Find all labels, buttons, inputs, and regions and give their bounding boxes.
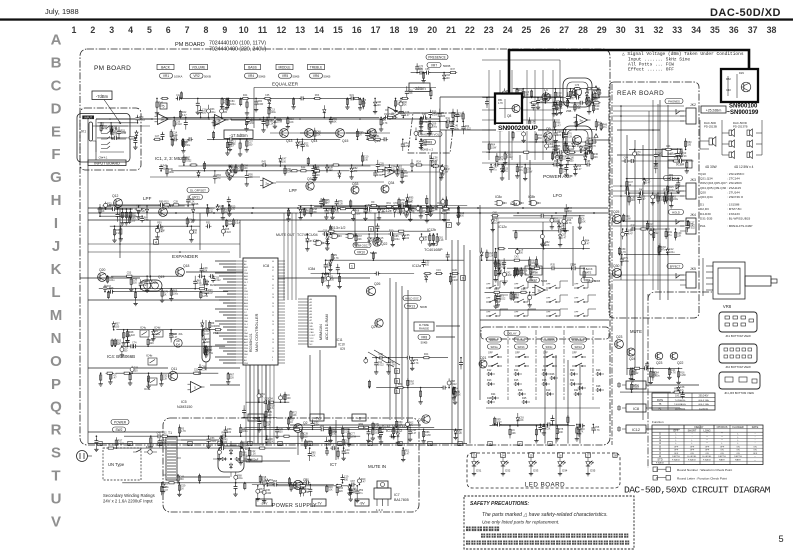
wire bbox=[242, 417, 277, 419]
capacitor C237 bbox=[514, 97, 518, 115]
resistor R564 bbox=[372, 422, 380, 430]
svg-text:100: 100 bbox=[446, 77, 451, 80]
wire bus junction dots bbox=[99, 207, 595, 214]
svg-text:M: M bbox=[50, 307, 63, 324]
resistor R457 bbox=[494, 292, 503, 309]
wire bbox=[632, 228, 670, 230]
svg-text:1/2W: 1/2W bbox=[491, 146, 497, 149]
resistor R529 bbox=[555, 141, 557, 154]
svg-text:100: 100 bbox=[268, 414, 273, 417]
resistor R610 bbox=[203, 161, 205, 172]
capacitor C595 bbox=[350, 480, 356, 487]
svg-text:22K: 22K bbox=[576, 107, 581, 110]
svg-text:Q25: Q25 bbox=[613, 210, 620, 214]
resistor R96 bbox=[119, 225, 123, 241]
resistor R481 bbox=[267, 401, 275, 412]
resistor R562 bbox=[347, 429, 357, 447]
capacitor C416 bbox=[158, 435, 167, 447]
svg-text:34: 34 bbox=[272, 279, 274, 281]
resistor R308 bbox=[626, 185, 628, 194]
resistor R87 bbox=[111, 125, 119, 138]
capacitor C305 bbox=[676, 178, 680, 194]
svg-text:10K: 10K bbox=[289, 121, 294, 124]
svg-text:: 2SC2458 F: : 2SC2458 F bbox=[727, 172, 744, 176]
capacitor C379 bbox=[542, 424, 551, 436]
svg-text:OFF: OFF bbox=[514, 311, 519, 313]
label EQUALIZER bbox=[272, 82, 299, 87]
capacitor C219 bbox=[550, 264, 556, 271]
svg-text:4.7K: 4.7K bbox=[498, 102, 503, 105]
svg-text:4: 4 bbox=[128, 25, 133, 35]
transistor Q32 bbox=[306, 177, 314, 190]
resistor R485 bbox=[286, 417, 295, 430]
capacitor C244 bbox=[489, 164, 498, 173]
wire bbox=[420, 120, 451, 122]
svg-text:10K: 10K bbox=[292, 414, 297, 417]
label POWER AMP bbox=[543, 174, 573, 180]
potentiometer VR8 mechanical drawing bbox=[703, 258, 777, 309]
capacitor C193 electrolytic bbox=[502, 267, 512, 285]
svg-text:R96: R96 bbox=[320, 425, 325, 428]
svg-text:23: 23 bbox=[472, 454, 476, 458]
capacitor C34 bbox=[184, 117, 188, 130]
svg-text:2.2K: 2.2K bbox=[116, 232, 121, 235]
resistor R533 bbox=[555, 102, 564, 116]
svg-text:100u: 100u bbox=[173, 292, 179, 295]
svg-text:7: 7 bbox=[448, 224, 450, 228]
resistor R163 bbox=[405, 199, 413, 209]
capacitor C358 bbox=[366, 427, 370, 443]
svg-text:Q18: Q18 bbox=[183, 264, 190, 268]
resistor R162 bbox=[310, 205, 318, 217]
transistor Q19 bbox=[140, 275, 165, 291]
resistor R225 bbox=[497, 248, 505, 250]
resistor R354 bbox=[407, 378, 415, 388]
capacitor C601 bbox=[213, 170, 222, 184]
connector JK3 bbox=[676, 178, 696, 199]
pill E-LEVEL DEPTH bbox=[525, 266, 547, 283]
resistor R216 bbox=[515, 230, 517, 240]
wire bbox=[102, 205, 184, 207]
svg-text:47u: 47u bbox=[668, 234, 673, 237]
svg-text:1: 1 bbox=[351, 265, 353, 269]
capacitor C319 bbox=[668, 174, 674, 181]
svg-text:330: 330 bbox=[134, 369, 139, 372]
svg-text:Function: Function bbox=[652, 420, 664, 424]
resistor R318 bbox=[664, 145, 672, 151]
svg-text:1/2W: 1/2W bbox=[425, 434, 431, 437]
svg-text:2: 2 bbox=[396, 370, 398, 374]
svg-text:C42: C42 bbox=[157, 432, 162, 435]
svg-text:D4-D30: D4-D30 bbox=[700, 212, 711, 216]
svg-text:10K: 10K bbox=[332, 121, 337, 124]
svg-text:0.47: 0.47 bbox=[112, 376, 117, 379]
pill LONG bbox=[514, 337, 528, 342]
resistor R381 bbox=[534, 425, 538, 443]
capacitor C195 bbox=[542, 239, 551, 249]
svg-text:OFF: OFF bbox=[674, 450, 679, 452]
svg-text:4.7K: 4.7K bbox=[591, 145, 596, 148]
transistor Q13 bbox=[280, 129, 293, 143]
svg-text:ON: ON bbox=[705, 453, 709, 455]
svg-text:4.7K: 4.7K bbox=[323, 202, 328, 205]
svg-text:50KB: 50KB bbox=[443, 64, 450, 68]
svg-text:SAFETY PRECAUTIONS:: SAFETY PRECAUTIONS: bbox=[470, 501, 529, 507]
control label BACK bbox=[157, 64, 174, 69]
svg-text:VR7: VR7 bbox=[431, 63, 437, 67]
capacitor C534 bbox=[584, 141, 593, 156]
svg-text:EFFECT: EFFECT bbox=[670, 264, 681, 268]
capacitor C598 electrolytic bbox=[439, 165, 449, 180]
wire bbox=[513, 215, 584, 217]
svg-text:0.47: 0.47 bbox=[235, 222, 240, 225]
control label BASS bbox=[245, 64, 261, 69]
wire bbox=[122, 482, 306, 484]
resistor R226 bbox=[491, 211, 499, 217]
svg-text:47u: 47u bbox=[422, 210, 427, 213]
resistor R549 bbox=[391, 233, 401, 247]
svg-text:2.2K: 2.2K bbox=[269, 123, 274, 126]
svg-text:1K: 1K bbox=[181, 487, 184, 490]
diode D179 bbox=[328, 259, 332, 271]
svg-text:-9V: -9V bbox=[359, 501, 365, 505]
capacitor C129 bbox=[205, 288, 214, 295]
resistor R541 bbox=[592, 98, 600, 104]
svg-text:28: 28 bbox=[578, 25, 588, 35]
wire bbox=[314, 206, 422, 208]
diode D580 bbox=[347, 484, 356, 496]
capacitor C235 electrolytic bbox=[521, 129, 525, 143]
resistor R249 bbox=[562, 129, 564, 140]
svg-text:330: 330 bbox=[666, 199, 671, 202]
resistor R594 bbox=[335, 485, 343, 487]
svg-text:R51: R51 bbox=[206, 222, 211, 225]
svg-text:D19: D19 bbox=[546, 389, 551, 392]
diode D56 bbox=[373, 98, 382, 114]
capacitor C290 bbox=[558, 150, 564, 154]
wire second channel bbox=[150, 172, 440, 182]
resistor R274 bbox=[558, 97, 567, 115]
PM board outline bbox=[80, 49, 610, 445]
pot VR7 bbox=[427, 63, 450, 69]
capacitor C390 bbox=[496, 422, 502, 426]
svg-text:D15: D15 bbox=[514, 379, 519, 382]
svg-text:22K: 22K bbox=[345, 452, 350, 455]
svg-text:A4: A4 bbox=[310, 310, 313, 313]
resistor R536 bbox=[574, 102, 582, 112]
svg-text:10K: 10K bbox=[519, 419, 524, 422]
svg-text:24: 24 bbox=[503, 25, 513, 35]
svg-text:Q04,Q05,Q09-Q30: Q04,Q05,Q09-Q30 bbox=[700, 186, 726, 190]
gate IC13b bbox=[346, 233, 359, 238]
resistor R386 bbox=[575, 424, 584, 442]
transistor Q8 callout box bbox=[495, 94, 522, 124]
resistor R513 bbox=[658, 245, 660, 255]
wire bbox=[620, 391, 671, 393]
svg-text:330: 330 bbox=[133, 282, 138, 285]
svg-text:0.022: 0.022 bbox=[451, 383, 458, 386]
svg-text:R84: R84 bbox=[359, 423, 364, 426]
capacitor C553 bbox=[376, 223, 380, 232]
svg-text:VR8: VR8 bbox=[723, 304, 732, 309]
speakers SP1-SP5 bbox=[700, 120, 762, 169]
resistor R408 bbox=[149, 435, 153, 449]
svg-text:22K: 22K bbox=[203, 270, 208, 273]
regulator IC7 package bbox=[374, 481, 409, 512]
resistor R241 bbox=[522, 88, 530, 99]
capacitor C326 bbox=[169, 329, 173, 340]
wire bbox=[111, 447, 296, 449]
svg-text:47u: 47u bbox=[532, 271, 537, 274]
resistor R439 bbox=[676, 368, 686, 385]
svg-text:R42: R42 bbox=[639, 189, 644, 192]
capacitor C483 electrolytic bbox=[279, 394, 288, 404]
capacitor C420 bbox=[325, 447, 329, 456]
resistor R250 bbox=[598, 87, 600, 98]
resistor R374 bbox=[396, 383, 404, 389]
capacitor C467 bbox=[438, 109, 447, 123]
svg-text:0.47: 0.47 bbox=[548, 146, 553, 149]
label IC11 IC10 IC9 bbox=[336, 338, 345, 351]
resistor R146 bbox=[419, 206, 428, 218]
diode D58 bbox=[295, 139, 304, 149]
diode D322 bbox=[202, 336, 211, 347]
capacitor C340 bbox=[169, 329, 178, 342]
svg-text:330: 330 bbox=[330, 278, 335, 281]
capacitor C497 electrolytic bbox=[104, 202, 113, 210]
capacitor C251 bbox=[506, 123, 516, 130]
svg-text:PA5: PA5 bbox=[244, 335, 249, 338]
capacitor C320 electrolytic bbox=[130, 366, 139, 374]
svg-text:330: 330 bbox=[305, 491, 310, 494]
svg-text:2.2K: 2.2K bbox=[338, 203, 343, 206]
diode D532 bbox=[544, 135, 553, 143]
IC12 power box bbox=[617, 425, 646, 433]
diode D404 bbox=[161, 482, 169, 494]
capacitor C141 electrolytic bbox=[416, 205, 420, 212]
resistor R21 bbox=[430, 88, 432, 99]
svg-text:28: 28 bbox=[272, 297, 274, 299]
svg-text:OFF: OFF bbox=[486, 311, 491, 313]
capacitor C452 electrolytic bbox=[528, 292, 532, 308]
capacitor C1 bbox=[365, 130, 374, 140]
resistor R450 bbox=[673, 388, 681, 394]
svg-text:IC9: IC9 bbox=[340, 347, 345, 351]
resistor R154 bbox=[399, 205, 407, 216]
svg-text:IC4b: IC4b bbox=[146, 354, 153, 358]
op-amp IC3b bbox=[532, 285, 548, 295]
wire bbox=[323, 208, 415, 210]
resistor R207 bbox=[520, 267, 528, 277]
svg-text:PA8: PA8 bbox=[244, 314, 249, 317]
svg-text:LPF: LPF bbox=[289, 188, 297, 193]
svg-text:100u: 100u bbox=[169, 171, 175, 174]
svg-text:Round Letter : Function Check: Round Letter : Function Check Point bbox=[677, 477, 727, 481]
capacitor C46 bbox=[329, 117, 338, 125]
svg-text:RATE: RATE bbox=[752, 426, 759, 429]
svg-text:A3: A3 bbox=[244, 359, 247, 362]
resistor R437 bbox=[161, 432, 169, 438]
capacitor C588 electrolytic bbox=[301, 485, 310, 496]
svg-text:1/2W: 1/2W bbox=[680, 374, 686, 377]
svg-text:U: U bbox=[51, 491, 62, 508]
transistor Q8 bbox=[498, 99, 520, 118]
capacitor C257 electrolytic bbox=[502, 88, 512, 98]
svg-text:A1: A1 bbox=[310, 301, 313, 304]
resistor R267 bbox=[523, 164, 533, 181]
svg-text:25: 25 bbox=[272, 306, 274, 308]
svg-text:330: 330 bbox=[344, 478, 349, 481]
svg-text:July, 1988: July, 1988 bbox=[45, 7, 79, 16]
pill SHORT bbox=[487, 337, 502, 342]
resistor R83 bbox=[100, 122, 108, 133]
svg-text:SW2: SW2 bbox=[116, 428, 123, 432]
svg-text:-7V: -7V bbox=[315, 416, 321, 420]
pill POWER bbox=[111, 420, 129, 433]
resistor R240 bbox=[591, 151, 599, 160]
svg-text:4.7K: 4.7K bbox=[334, 211, 339, 214]
svg-text:PA4: PA4 bbox=[244, 332, 249, 335]
svg-text:100: 100 bbox=[519, 252, 524, 255]
resistor R276 bbox=[552, 160, 560, 166]
check nodes bbox=[154, 223, 466, 281]
resistor R406 bbox=[177, 474, 185, 484]
svg-text:30: 30 bbox=[616, 25, 626, 35]
capacitor C31 bbox=[261, 117, 265, 133]
svg-text:Q23: Q23 bbox=[616, 335, 623, 339]
resistor R12 bbox=[240, 98, 242, 107]
capacitor C198 electrolytic bbox=[581, 237, 590, 250]
resistor R334 bbox=[128, 372, 132, 385]
svg-text:DOUT: DOUT bbox=[310, 335, 316, 337]
wire bbox=[267, 485, 352, 487]
svg-text:2.2K: 2.2K bbox=[202, 368, 207, 371]
resistor R323 bbox=[209, 320, 216, 330]
wire power amp grid bbox=[482, 60, 560, 163]
label EXPANDER bbox=[172, 254, 199, 260]
diode D197 bbox=[491, 215, 501, 232]
resistor R573 bbox=[371, 427, 380, 441]
svg-text:D20: D20 bbox=[570, 369, 575, 372]
wire equalizer signal path bbox=[96, 118, 440, 133]
svg-text:34: 34 bbox=[691, 25, 701, 35]
resistor R321 bbox=[146, 372, 150, 388]
svg-text:PM BOARD: PM BOARD bbox=[175, 42, 205, 48]
resistor R455 bbox=[510, 292, 518, 301]
svg-text:100u: 100u bbox=[669, 251, 675, 254]
svg-text:INPUT BOARD: INPUT BOARD bbox=[94, 161, 120, 165]
capacitor C464 bbox=[450, 121, 459, 134]
svg-text:A7: A7 bbox=[310, 319, 313, 322]
resistor R286 bbox=[590, 88, 598, 90]
resistor R471 bbox=[462, 111, 464, 122]
svg-text:AB4: AB4 bbox=[244, 302, 249, 305]
capacitor C378 bbox=[538, 424, 542, 433]
wire bbox=[124, 435, 360, 437]
resistor R285 bbox=[496, 129, 504, 131]
svg-text:2.2K: 2.2K bbox=[190, 201, 195, 204]
resistor R65 bbox=[352, 97, 360, 99]
resistor R380 bbox=[567, 415, 569, 425]
resistor R515 bbox=[672, 157, 680, 163]
capacitor C592 bbox=[355, 485, 364, 503]
svg-text:47u: 47u bbox=[519, 169, 524, 172]
capacitor C472 electrolytic bbox=[428, 121, 438, 135]
svg-text:A1: A1 bbox=[244, 263, 247, 266]
svg-text:330: 330 bbox=[180, 478, 185, 481]
svg-text:D26: D26 bbox=[550, 373, 555, 376]
svg-text:25: 25 bbox=[522, 25, 532, 35]
svg-text:330: 330 bbox=[374, 432, 379, 435]
svg-text:A0: A0 bbox=[310, 298, 313, 301]
resistor R345 bbox=[226, 372, 235, 384]
resistor R174 bbox=[385, 202, 393, 208]
diode D311 bbox=[642, 178, 651, 185]
svg-text:1 2 3: 1 2 3 bbox=[376, 508, 383, 512]
svg-text:CK1: CK1 bbox=[244, 294, 249, 296]
svg-text:OFF: OFF bbox=[690, 446, 695, 448]
svg-text:Q12: Q12 bbox=[112, 194, 119, 198]
svg-text:0.47: 0.47 bbox=[159, 230, 164, 233]
svg-text:13: 13 bbox=[295, 25, 305, 35]
svg-text:R44: R44 bbox=[243, 94, 248, 97]
svg-text:C73: C73 bbox=[625, 189, 630, 192]
resistor R14 bbox=[171, 138, 173, 146]
power supply outline bbox=[163, 418, 419, 512]
resistor R633 bbox=[332, 164, 340, 166]
diode D384 bbox=[516, 413, 525, 427]
svg-text:: 2SD746 O: : 2SD746 O bbox=[727, 195, 744, 199]
svg-text:D21: D21 bbox=[210, 283, 216, 287]
capacitor C555 electrolytic bbox=[420, 233, 429, 243]
label IC1 type bbox=[155, 156, 190, 161]
resistor R289 bbox=[573, 84, 581, 90]
svg-text:C40: C40 bbox=[726, 88, 731, 92]
svg-text:47u: 47u bbox=[307, 443, 312, 446]
resistor R602 bbox=[307, 157, 309, 166]
svg-text:22K: 22K bbox=[545, 244, 550, 247]
resistor R563 bbox=[301, 429, 309, 442]
resistor R612 bbox=[400, 170, 409, 184]
resistor R415 bbox=[177, 482, 186, 497]
transistor Q11 bbox=[168, 367, 177, 381]
resistor R385 bbox=[555, 425, 564, 441]
svg-text:24V x 2 1.6A 2200uF Input: 24V x 2 1.6A 2200uF Input bbox=[103, 499, 153, 504]
svg-text:10K: 10K bbox=[404, 175, 409, 178]
svg-text:2.2K: 2.2K bbox=[439, 239, 444, 242]
label SN900200UP bbox=[496, 124, 538, 132]
capacitor C523 bbox=[553, 141, 562, 154]
svg-text:330: 330 bbox=[364, 158, 369, 161]
transistor Q29 bbox=[670, 352, 683, 365]
resistor R127 bbox=[200, 291, 209, 299]
svg-text:C59: C59 bbox=[366, 204, 371, 207]
label SN900100 bbox=[727, 104, 760, 117]
svg-text:33: 33 bbox=[672, 25, 682, 35]
svg-text:P: P bbox=[51, 376, 61, 393]
svg-text:: 1SS133: : 1SS133 bbox=[727, 212, 740, 216]
svg-text:IC4c: IC4c bbox=[140, 326, 147, 330]
svg-text:RATE: RATE bbox=[585, 272, 592, 275]
label LPF 1 bbox=[143, 196, 152, 201]
svg-text:AB5: AB5 bbox=[244, 275, 249, 278]
capacitor C591 electrolytic bbox=[357, 477, 366, 485]
svg-text:JK4: JK4 bbox=[690, 213, 696, 217]
resistor R10 bbox=[181, 139, 191, 154]
capacitor C382 bbox=[591, 424, 600, 434]
bridge rectifier D1 bbox=[213, 441, 262, 477]
capacitor C542 bbox=[591, 138, 597, 145]
